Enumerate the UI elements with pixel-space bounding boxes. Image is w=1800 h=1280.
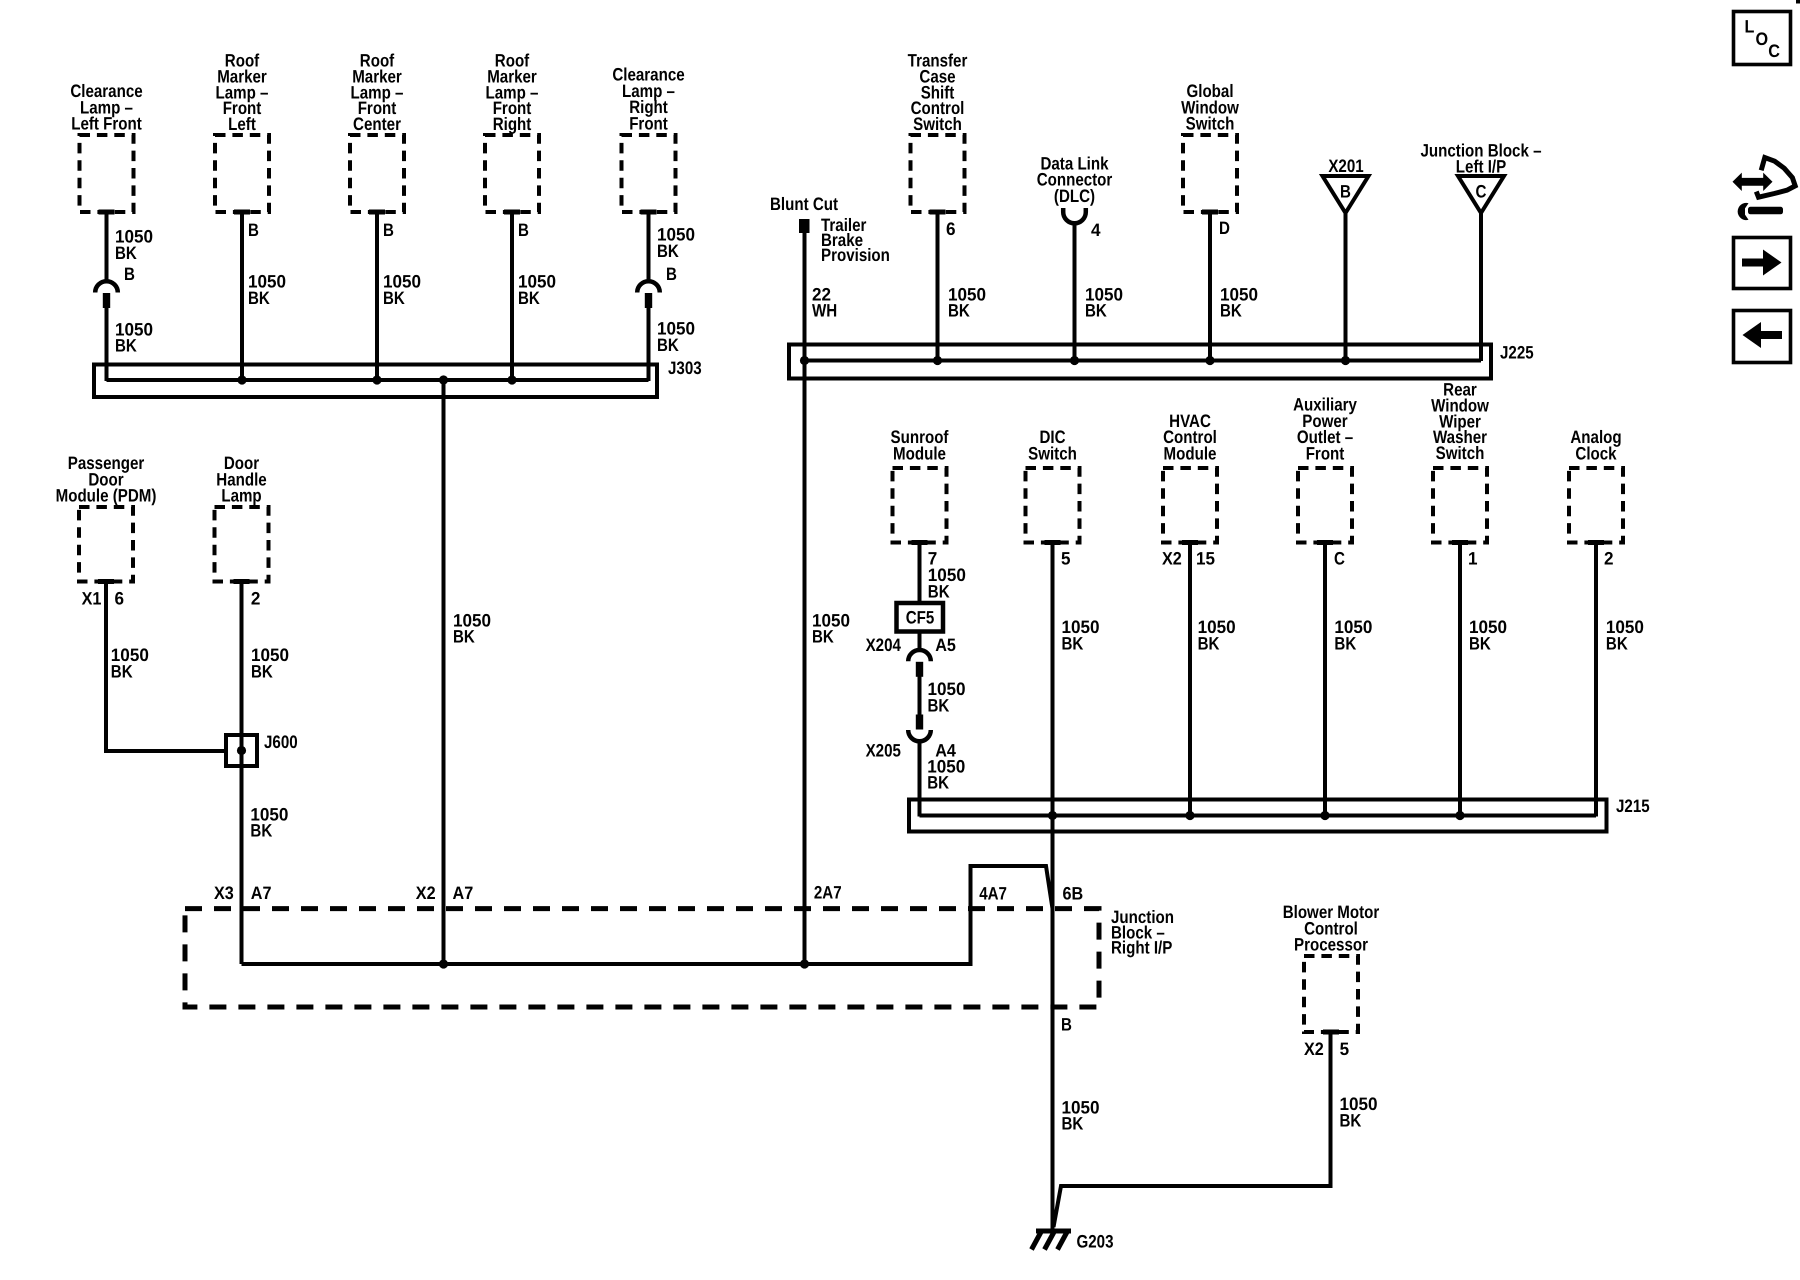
pin X2 label (junction block) [416,883,436,903]
svg-text:Switch: Switch [913,114,962,134]
splice pack J215 (bus bar) [909,800,1607,832]
label 1050 BK (wire 2) [248,272,286,308]
pin B label (wire 4) [518,220,529,240]
pin B label (wire 2) [248,220,259,240]
label 1050 BK (clock wire) [1606,617,1644,653]
label Transfer Case Shift Control Switch [908,51,968,135]
junction dot J225 DLC wire [1070,356,1079,365]
label Global Window Switch [1181,81,1240,134]
inline connector B (left clearance lamp) [95,281,118,308]
svg-text:B: B [1340,181,1351,201]
pin 2A7 label [814,883,842,903]
svg-text:J225: J225 [1500,343,1534,363]
svg-text:Processor: Processor [1294,935,1368,955]
label Rear Window Wiper Washer Switch [1431,380,1490,464]
svg-text:J215: J215 [1616,796,1650,816]
label Auxiliary Power Outlet - Front [1293,395,1357,464]
label 1050 BK (below J600) [250,804,288,840]
component Sunroof Module (dashed box) [893,468,947,545]
svg-text:BK: BK [1606,633,1628,653]
junction dot J225 transfer wire [933,356,942,365]
svg-text:X1: X1 [82,589,102,609]
junction dot J225 X201 wire [1341,356,1350,365]
svg-text:Right: Right [493,114,532,134]
label Data Link Connector (DLC) [1037,153,1113,206]
wire clearance-lamp-LF lower segment [105,308,109,381]
svg-text:BK: BK [248,288,270,308]
wire global-window to J225 [1208,212,1212,361]
label X204 [866,635,901,655]
component HVAC Control Module (dashed box) [1163,468,1217,545]
svg-text:X2: X2 [416,883,436,903]
svg-text:2: 2 [1604,549,1614,569]
splice pack J225 (bus bar) [789,345,1491,379]
connector Junction Block - Left I/P (triangle C) [1458,176,1504,213]
label 1050 BK (DIC wire) [1062,617,1100,653]
wire J303 splice down to junction block [442,380,446,964]
component Clearance Lamp - Left Front (dashed box) [80,135,134,215]
label Roof Marker Lamp - Front Left [216,51,269,135]
wire clearance-lamp-RF lower segment [647,308,651,381]
svg-text:5: 5 [1340,1039,1350,1059]
connector X201 (triangle B) [1323,176,1369,213]
svg-text:4: 4 [1091,220,1101,240]
svg-text:J303: J303 [668,358,702,378]
svg-text:BK: BK [1469,633,1491,653]
svg-text:BK: BK [948,301,970,321]
pin 1 label (wiper washer switch) [1468,549,1478,569]
svg-text:BK: BK [1198,633,1220,653]
svg-text:Switch: Switch [1186,114,1235,134]
wire X204 to X205 [918,677,922,715]
blunt cut terminal (trailer brake provision) [799,219,810,233]
label G203 [1077,1232,1114,1252]
svg-text:BK: BK [518,288,540,308]
svg-text:O: O [1756,29,1769,49]
component Blower Motor Control Processor (dashed box) [1304,956,1358,1035]
svg-text:Module: Module [1164,443,1217,463]
svg-text:Switch: Switch [1028,443,1077,463]
pin A7 label (X2 side) [453,883,474,903]
svg-text:Front: Front [1306,443,1345,463]
svg-text:15: 15 [1196,549,1215,569]
pin 15 label (HVAC) [1196,549,1215,569]
svg-text:Provision: Provision [821,245,890,265]
wire analog-clock to J215 [1594,543,1598,817]
svg-text:Front: Front [629,114,668,134]
svg-text:X2: X2 [1304,1039,1324,1059]
label Junction Block - Left I/P [1421,140,1542,176]
pin 5 label (blower) [1340,1039,1350,1059]
label 1050 BK (door handle wire) [251,645,289,681]
component Roof Marker Lamp - Front Right (dashed box) [485,135,539,215]
svg-text:BK: BK [383,288,405,308]
label Sunroof Module [891,427,950,463]
component Roof Marker Lamp - Front Left (dashed box) [215,135,269,215]
wire roof-marker-FL [240,212,244,380]
svg-text:L: L [1745,16,1755,36]
svg-text:J600: J600 [264,732,298,752]
label 1050 BK (wiper washer wire) [1469,617,1507,653]
label 1050 BK (sunroof mid) [928,679,966,715]
wire sunroof to CF5 [918,543,922,604]
label 1050 BK (2A7 wire) [812,610,850,646]
pin X1 label (PDM) [82,589,102,609]
wire DIC switch down to ground node [1051,543,1055,1232]
label Roof Marker Lamp - Front Right [486,51,539,135]
junction dot J303 wire4 [507,375,516,384]
pin A7 label (X3 side) [251,883,272,903]
svg-text:Module (PDM): Module (PDM) [56,486,157,506]
svg-text:CF5: CF5 [906,608,935,628]
label 1050 BK (J303 down wire) [453,610,491,646]
svg-text:BK: BK [250,821,272,841]
label Roof Marker Lamp - Front Center [351,51,404,135]
label 1050 BK (PDM wire) [111,645,149,681]
junction dot internal bus / 2A7 wire [800,959,809,968]
svg-text:BK: BK [1334,633,1356,653]
svg-text:5: 5 [1061,549,1071,569]
svg-text:B: B [1061,1015,1072,1035]
svg-text:X204: X204 [866,635,901,655]
label Clearance Lamp - Left Front [70,81,142,134]
svg-text:A5: A5 [935,635,956,655]
pin X3 label (junction block) [214,883,234,903]
svg-text:BK: BK [1062,1114,1084,1134]
inline connector B (right clearance lamp) [637,281,660,308]
svg-text:X3: X3 [214,883,234,903]
label 1050 BK (wire 5 lower) [657,319,695,355]
svg-text:D: D [1219,218,1230,238]
pin D label (global window switch) [1219,218,1230,238]
svg-text:BK: BK [657,241,679,261]
label HVAC Control Module [1163,411,1217,464]
svg-text:BK: BK [927,773,949,793]
icon forward arrow box [1734,238,1791,289]
label 1050 BK (DLC wire) [1085,284,1123,320]
label X205 [866,740,901,760]
pin X2 label (blower) [1304,1039,1324,1059]
wire X205 to J215 [918,741,922,816]
svg-text:BK: BK [1220,301,1242,321]
pin 4A7 label [979,884,1007,904]
label 1050 BK (sunroof lower) [927,756,965,792]
svg-text:B: B [666,264,677,284]
pin 2 label (door handle lamp) [251,589,261,609]
wire clearance-lamp-RF upper segment [647,212,651,281]
svg-text:Left: Left [228,114,256,134]
svg-text:A7: A7 [453,883,474,903]
svg-text:BK: BK [115,336,137,356]
component Clearance Lamp - Right Front (dashed box) [622,135,676,215]
pin 2 label (analog clock) [1604,549,1614,569]
label J215 [1616,796,1650,816]
svg-text:Right I/P: Right I/P [1111,938,1172,958]
component Junction Block - Right I/P (dashed outline) [185,909,1099,1007]
junction dot J215 DIC wire [1048,811,1057,820]
svg-text:G203: G203 [1077,1232,1114,1252]
label DIC Switch [1028,427,1077,463]
svg-text:(DLC): (DLC) [1054,186,1095,206]
wire junction-block-left to J225 [1479,213,1483,361]
pin label 1050 BK (wire 1 upper) [115,227,153,263]
label CF5 [906,608,935,628]
label 1050 BK (wire 1 lower) [115,319,153,355]
svg-text:4A7: 4A7 [979,884,1007,904]
component Auxiliary Power Outlet - Front (dashed box) [1298,468,1352,545]
label J225 [1500,343,1534,363]
svg-text:Lamp: Lamp [221,486,261,506]
label 1050 BK (wire 4) [518,272,556,308]
wire roof-marker-FR [510,212,514,380]
svg-text:C: C [1768,41,1780,61]
label 1050 BK (blower wire) [1340,1094,1378,1130]
svg-text:BK: BK [1340,1110,1362,1130]
junction dot internal bus / X2-A7 wire [439,959,448,968]
svg-text:Blunt Cut: Blunt Cut [770,194,838,214]
connector Data Link Connector DLC (half circle) [1063,208,1086,223]
label Analog Clock [1570,427,1621,463]
pin B label (wire 5) [666,264,677,284]
wire blower motor to ground node [1054,1032,1331,1227]
svg-text:2: 2 [251,589,261,609]
wire clearance-lamp-LF upper segment [105,212,109,281]
pin 6B label [1063,884,1084,904]
svg-text:BK: BK [115,243,137,263]
svg-text:B: B [518,220,529,240]
svg-text:BK: BK [928,696,950,716]
label 1050 BK (global window wire) [1220,284,1258,320]
label 1050 BK (ground wire) [1062,1097,1100,1133]
svg-text:Left Front: Left Front [71,114,142,134]
svg-text:BK: BK [111,661,133,681]
wire junction block internal bus [242,866,1053,964]
junction dot J225 blunt-cut wire [800,356,809,365]
wire aux-outlet to J215 [1323,543,1327,816]
junction dot J600 [237,746,246,755]
component Roof Marker Lamp - Front Center (dashed box) [350,135,404,215]
svg-text:C: C [1476,181,1487,201]
pin 6 label (PDM) [115,589,125,609]
svg-text:Switch: Switch [1436,443,1485,463]
component Global Window Switch (dashed box) [1183,135,1237,215]
wire 22 WH / 2A7 (blunt cut down through J225) [803,233,807,964]
label 1050 BK (transfer case wire) [948,284,986,320]
icon LOC box [1734,12,1791,65]
svg-text:BK: BK [453,627,475,647]
wire roof-marker-FC [375,212,379,380]
icon navigation (arrows and wrench) [1733,158,1796,221]
junction dot J215 aux wire [1320,811,1329,820]
component Door Handle Lamp (dashed box) [215,507,269,584]
svg-text:Clock: Clock [1575,443,1617,463]
svg-text:2A7: 2A7 [814,883,842,903]
svg-text:6B: 6B [1063,884,1084,904]
label Clearance Lamp - Right Front [612,65,684,134]
svg-text:Module: Module [893,443,946,463]
component Passenger Door Module PDM (dashed box) [79,507,133,584]
svg-text:BK: BK [657,335,679,355]
component Rear Window Wiper Washer Switch (dashed box) [1433,468,1487,545]
pin A5 label [935,635,956,655]
junction dot J215 HVAC wire [1185,811,1194,820]
pin 4 label (DLC) [1091,220,1101,240]
wire CF5 to X204 [918,632,922,651]
wire door-handle-lamp down to junction block [240,582,244,965]
pin B label (junction block bottom) [1061,1015,1072,1035]
svg-text:X205: X205 [866,740,901,760]
svg-text:BK: BK [251,661,273,681]
wire X201 to J225 [1344,213,1348,361]
label Door Handle Lamp [216,453,266,506]
junction dot J303 wire3 [372,375,381,384]
label J600 [264,732,298,752]
svg-text:1: 1 [1468,549,1478,569]
junction dot J303 wire2 [237,375,246,384]
svg-text:X2: X2 [1162,549,1182,569]
label Junction Block - Right I/P [1111,907,1174,958]
inline connector X204 [908,650,931,677]
component Analog Clock (dashed box) [1569,468,1623,545]
svg-text:6: 6 [946,219,956,239]
label Trailer Brake Provision [821,215,890,265]
svg-text:X201: X201 [1328,156,1363,176]
wire transfer-case to J225 [936,212,940,361]
fuse CF5 (box) [897,603,944,632]
pin B label (wire 3) [383,220,394,240]
component DIC Switch (dashed box) [1026,468,1080,545]
label 1050 BK (wire 5 upper) [657,225,695,261]
wire PDM to J600 [106,582,228,752]
label Blower Motor Control Processor [1283,902,1380,955]
svg-text:BK: BK [928,581,950,601]
junction dot J303 outgoing [439,375,448,384]
splice pack J303 (bus bar) [94,365,657,398]
corner mark top-right [1796,0,1800,4]
splice J600 (box) [226,735,257,766]
component Transfer Case Shift Control Switch (dashed box) [911,135,965,215]
label Passenger Door Module (PDM) [56,453,157,506]
ground G203 (chassis ground symbol) [1032,1231,1072,1250]
svg-text:Left I/P: Left I/P [1456,157,1506,177]
wire wiper-washer to J215 [1458,543,1462,816]
pin A4 label [935,740,956,760]
svg-text:BK: BK [1062,633,1084,653]
svg-text:B: B [383,220,394,240]
label J303 [668,358,702,378]
svg-text:A7: A7 [251,883,272,903]
svg-text:Center: Center [353,114,401,134]
svg-text:WH: WH [812,301,837,321]
junction dot J215 wiper wire [1455,811,1464,820]
wire HVAC to J215 [1188,543,1192,816]
wire DLC to J225 [1073,224,1077,362]
svg-text:BK: BK [812,627,834,647]
svg-text:B: B [124,264,135,284]
svg-text:B: B [248,220,259,240]
svg-text:BK: BK [1085,301,1107,321]
pin X2 label (HVAC) [1162,549,1182,569]
junction dot J225 global-window wire [1205,356,1214,365]
label 1050 BK (HVAC wire) [1198,617,1236,653]
pin C label (aux power outlet) [1334,549,1345,569]
label X201 [1328,156,1363,176]
inline connector X205 [908,715,931,742]
svg-text:6: 6 [115,589,125,609]
pin 6 label (transfer case switch) [946,219,956,239]
label 1050 BK (wire 3) [383,272,421,308]
label 22 WH [812,284,837,320]
svg-text:C: C [1334,549,1345,569]
pin 7 and 1050 BK label (sunroof) [928,549,966,602]
pin 5 label (DIC) [1061,549,1071,569]
label 1050 BK (aux outlet wire) [1334,617,1372,653]
label Blunt Cut [770,194,838,214]
icon back arrow box [1734,311,1791,363]
pin B label (wire 1) [124,264,135,284]
